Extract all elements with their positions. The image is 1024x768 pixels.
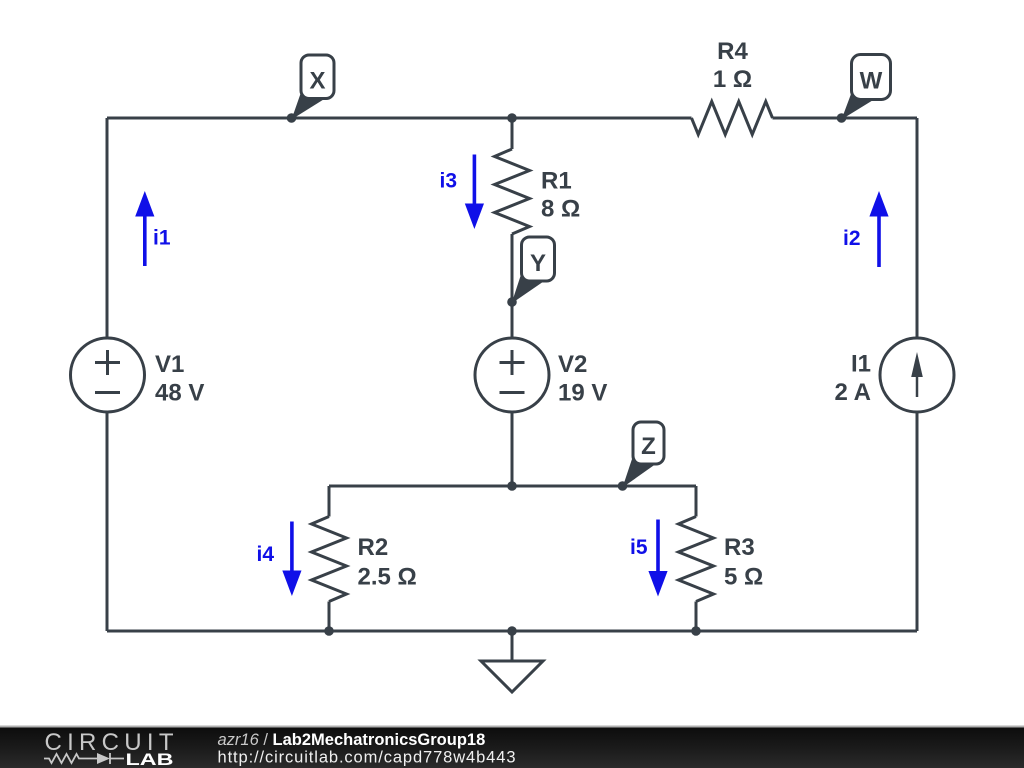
svg-text:19 V: 19 V	[558, 380, 607, 407]
wire middle branch upper	[511, 118, 514, 149]
junction dot node X	[287, 113, 297, 123]
node W flag	[842, 90, 875, 120]
svg-text:5 Ω: 5 Ω	[724, 564, 763, 591]
svg-text:1 Ω: 1 Ω	[713, 66, 752, 93]
junction dot node Y	[507, 297, 517, 307]
ground	[511, 631, 514, 661]
wire R3 top lead	[695, 486, 698, 517]
svg-text:2 A: 2 A	[835, 379, 871, 406]
wire top-right horizontal	[773, 117, 918, 120]
svg-text:i4: i4	[257, 543, 275, 566]
resistor R4	[692, 102, 773, 135]
current arrow i4	[290, 522, 294, 573]
wire R3 bottom lead	[695, 602, 698, 632]
wire middle branch lower (through node Y)	[511, 234, 514, 338]
wire left vertical upper	[106, 118, 109, 338]
svg-text:http://circuitlab.com/capd778w: http://circuitlab.com/capd778w4b443	[218, 749, 516, 767]
wire bottom horizontal	[107, 630, 917, 633]
svg-text:I1: I1	[851, 351, 871, 378]
svg-text:W: W	[860, 68, 883, 95]
svg-text:R3: R3	[724, 534, 755, 561]
current arrow i1	[143, 214, 147, 266]
node X flag	[292, 90, 324, 120]
resistor R1	[495, 149, 530, 234]
wire middle horizontal	[329, 485, 696, 488]
svg-text:i1: i1	[153, 227, 171, 250]
voltage source V2	[475, 338, 549, 412]
svg-text:V1: V1	[155, 351, 184, 378]
resistor R3	[679, 517, 714, 602]
svg-text:2.5 Ω: 2.5 Ω	[358, 564, 417, 591]
junction dot node W	[837, 113, 847, 123]
svg-text:Y: Y	[530, 250, 546, 277]
wire R2 top lead	[328, 486, 331, 517]
current arrow i3	[473, 155, 477, 207]
wire top-left horizontal	[107, 117, 692, 120]
current source I1	[880, 338, 954, 412]
voltage source V1	[71, 338, 145, 412]
junction dot ground	[507, 626, 517, 636]
svg-text:R2: R2	[358, 534, 389, 561]
node Y flag	[512, 272, 544, 304]
current arrow i2	[877, 215, 881, 267]
logo resistor-diode symbol	[44, 754, 124, 763]
svg-text:Z: Z	[641, 433, 656, 460]
wire right vertical lower	[916, 412, 919, 631]
wire right vertical upper	[916, 118, 919, 338]
junction dot R1 top	[507, 113, 517, 123]
junction dot R3 bottom	[691, 626, 701, 636]
svg-text:48 V: 48 V	[155, 380, 204, 407]
wire R2 bottom lead	[328, 602, 331, 632]
current arrow i5	[656, 520, 660, 573]
node Z flag	[623, 455, 656, 488]
svg-text:X: X	[309, 68, 325, 95]
svg-text:i5: i5	[630, 536, 648, 559]
svg-text:R4: R4	[717, 38, 748, 65]
wire left vertical lower	[106, 412, 109, 631]
wire V2 bottom lead	[511, 412, 514, 486]
junction dot node Z	[618, 481, 628, 491]
svg-text:i2: i2	[843, 227, 861, 250]
resistor R2	[312, 517, 347, 602]
junction dot R2 bottom	[324, 626, 334, 636]
svg-text:8 Ω: 8 Ω	[541, 196, 580, 223]
junction dot V2 bottom	[507, 481, 517, 491]
svg-text:V2: V2	[558, 351, 587, 378]
svg-text:i3: i3	[440, 170, 458, 193]
svg-text:R1: R1	[541, 168, 572, 195]
svg-text:azr16 / Lab2MechatronicsGroup1: azr16 / Lab2MechatronicsGroup18	[218, 731, 486, 749]
svg-text:LAB: LAB	[126, 751, 174, 768]
